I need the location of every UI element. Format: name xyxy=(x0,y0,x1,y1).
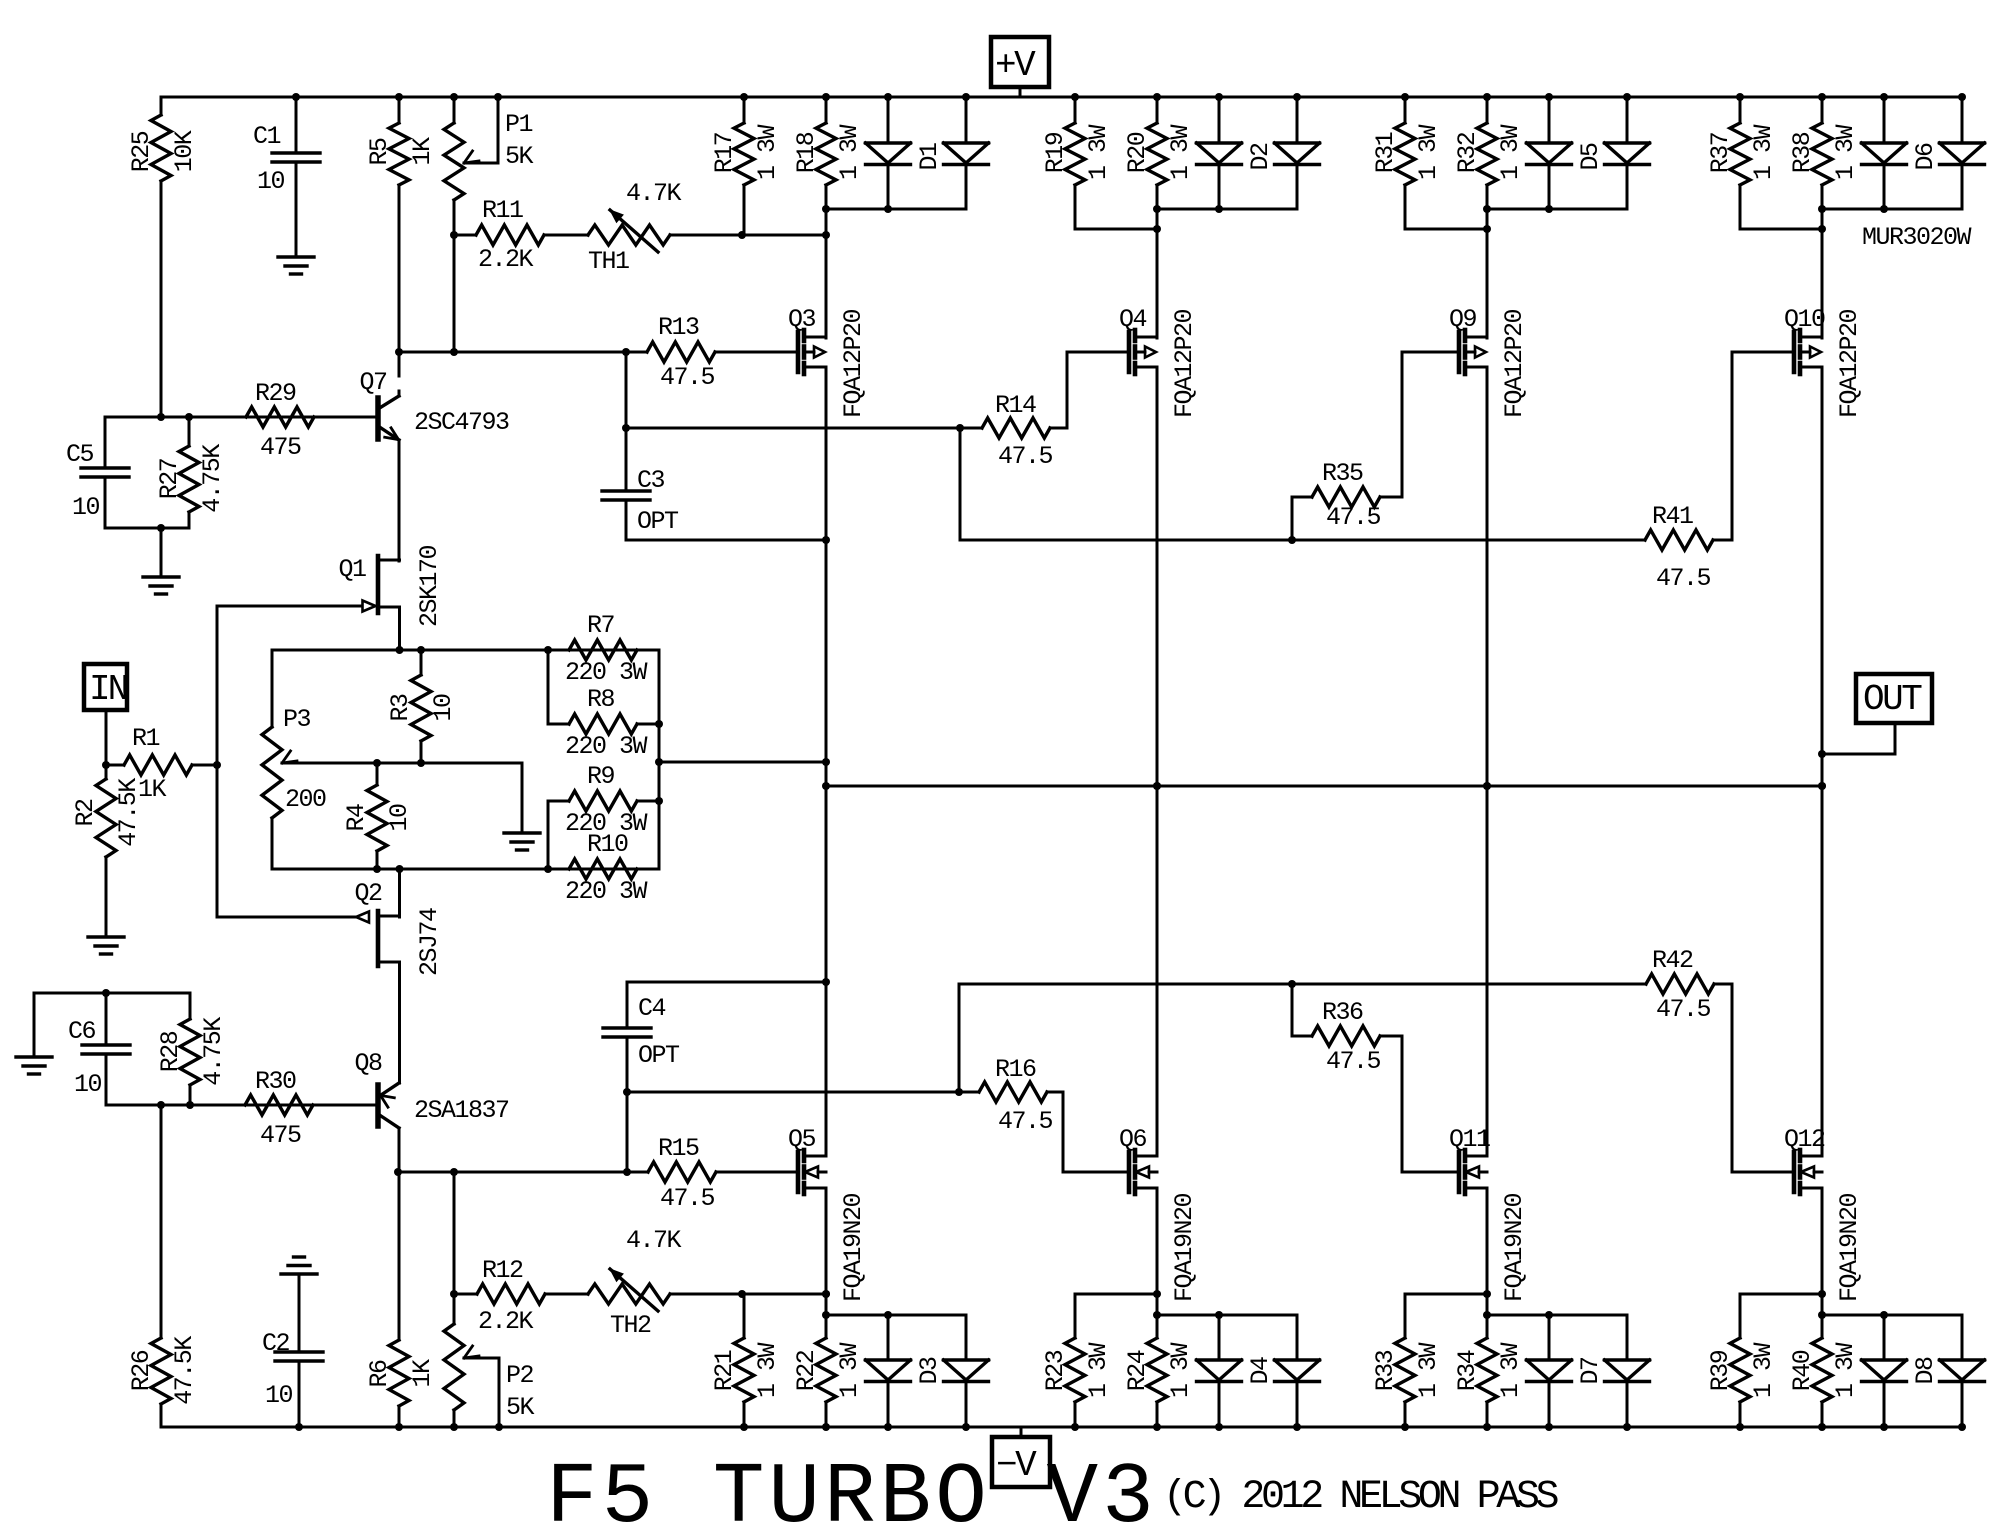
svg-text:R34: R34 xyxy=(1453,1350,1482,1391)
diode D8 b xyxy=(1961,1315,1964,1360)
wire gate bus drop to y540 xyxy=(959,428,962,540)
transistor Q2 2SJ74 xyxy=(376,911,381,966)
svg-text:D7: D7 xyxy=(1576,1357,1605,1385)
wire R23 tie xyxy=(1075,1293,1157,1296)
resistor R14 xyxy=(960,427,982,430)
svg-text:+V: +V xyxy=(995,45,1036,86)
resistor R11 xyxy=(454,234,476,237)
svg-text:Q9: Q9 xyxy=(1449,305,1477,334)
wire C4 to drain column xyxy=(627,981,826,984)
svg-text:C3: C3 xyxy=(637,466,665,495)
resistor R25 xyxy=(160,97,163,115)
+V port xyxy=(991,37,1049,87)
wire Q1 source down xyxy=(398,607,401,650)
wire C6 top tie xyxy=(34,992,190,995)
ground below C1 xyxy=(278,255,314,258)
svg-text:R38: R38 xyxy=(1788,132,1817,173)
svg-text:R37: R37 xyxy=(1706,132,1735,173)
resistor R8 220 3W xyxy=(547,650,550,724)
potentiometer P2 xyxy=(453,1294,456,1324)
resistor R18 1 3W xyxy=(825,97,828,123)
svg-text:C1: C1 xyxy=(253,122,281,151)
svg-text:Q6: Q6 xyxy=(1119,1125,1147,1154)
transistor Q7 2SC4793 xyxy=(375,398,381,439)
capacitor C4 OPT xyxy=(626,1037,629,1092)
wire Q9 drain down xyxy=(1486,367,1489,1156)
svg-text:R13: R13 xyxy=(658,313,699,342)
wire D3 tie xyxy=(826,1314,966,1317)
svg-text:2SK170: 2SK170 xyxy=(415,545,444,627)
wire Q8 collector down xyxy=(398,1128,401,1172)
wire Q1 source node line xyxy=(272,649,659,652)
svg-text:5K: 5K xyxy=(506,1393,535,1422)
wire +V stem xyxy=(1019,87,1022,97)
resistor R16 xyxy=(979,1082,1047,1102)
svg-text:47.5: 47.5 xyxy=(998,442,1053,471)
svg-text:R22: R22 xyxy=(792,1350,821,1391)
svg-text:1 3W: 1 3W xyxy=(835,1343,864,1399)
svg-text:R6: R6 xyxy=(365,1360,394,1388)
wire gate bus y428 xyxy=(626,427,960,430)
svg-text:47.5: 47.5 xyxy=(1326,503,1381,532)
svg-text:Q10: Q10 xyxy=(1784,305,1825,334)
svg-text:1 3W: 1 3W xyxy=(753,125,782,181)
svg-text:R11: R11 xyxy=(482,196,523,225)
svg-text:D2: D2 xyxy=(1246,143,1275,171)
wire IN stem xyxy=(105,710,108,765)
wire gate bus rise to y984 xyxy=(958,984,961,1092)
top rail dots xyxy=(292,93,300,101)
svg-text:TH1: TH1 xyxy=(588,247,629,276)
resistor R22 1 3W xyxy=(816,1338,836,1402)
svg-text:R17: R17 xyxy=(710,132,739,173)
svg-text:1 3W: 1 3W xyxy=(1414,1343,1443,1399)
svg-text:TH2: TH2 xyxy=(610,1311,651,1340)
resistor R19 1 3W xyxy=(1074,97,1077,123)
wire P2 column xyxy=(453,1172,456,1294)
svg-text:475: 475 xyxy=(260,433,301,462)
svg-text:D5: D5 xyxy=(1576,143,1605,171)
transistor Q10 FQA12P20 xyxy=(1792,332,1797,372)
svg-text:Q3: Q3 xyxy=(788,305,816,334)
svg-text:4.75K: 4.75K xyxy=(199,1017,228,1086)
wire P1 node down to front-end line xyxy=(453,235,456,352)
wire gate feed rise x627 xyxy=(626,1092,629,1172)
svg-text:R24: R24 xyxy=(1123,1350,1152,1391)
ground below C5 R27 xyxy=(143,575,179,578)
resistor R10 220 3W xyxy=(569,859,637,879)
svg-text:R30: R30 xyxy=(255,1067,296,1096)
wire P3 wiper line xyxy=(282,762,522,765)
wire +V top rail xyxy=(161,96,1964,99)
resistor R21 1 3W xyxy=(743,1294,746,1338)
wire front-end N line xyxy=(398,1171,648,1174)
wire R14 to Q4 gate xyxy=(1066,352,1069,428)
svg-text:220 3W: 220 3W xyxy=(565,877,648,906)
svg-text:47.5: 47.5 xyxy=(1656,564,1711,593)
transistor Q12 FQA19N20 xyxy=(1792,1152,1797,1192)
svg-text:1 3W: 1 3W xyxy=(1749,1343,1778,1399)
wire gate column xyxy=(216,606,219,917)
wire R16 to Q6 gate xyxy=(1062,1092,1065,1172)
svg-text:2.2K: 2.2K xyxy=(478,245,534,274)
svg-text:FQA12P20: FQA12P20 xyxy=(1170,309,1199,418)
resistor R40 1 3W xyxy=(1812,1338,1832,1402)
diode D3 b xyxy=(965,1315,968,1360)
wire Q2 source node line xyxy=(272,868,659,871)
svg-text:R32: R32 xyxy=(1453,132,1482,173)
resistor R3 xyxy=(420,650,423,675)
svg-text:220 3W: 220 3W xyxy=(565,658,648,687)
svg-text:10: 10 xyxy=(265,1381,293,1410)
diode D8 a xyxy=(1883,1315,1886,1360)
svg-text:FQA12P20: FQA12P20 xyxy=(839,309,868,418)
resistor R34 1 3W xyxy=(1477,1338,1497,1402)
resistor R24 1 3W xyxy=(1147,1338,1167,1402)
wire D6 tie xyxy=(1822,208,1962,211)
wire -V stem xyxy=(1020,1427,1023,1437)
svg-text:R21: R21 xyxy=(710,1350,739,1391)
svg-text:MUR3020W: MUR3020W xyxy=(1862,223,1972,252)
diode D6 b xyxy=(1961,97,1964,143)
svg-text:10: 10 xyxy=(72,493,100,522)
resistor R33 1 3W xyxy=(1404,1294,1407,1338)
svg-text:P3: P3 xyxy=(283,705,311,734)
svg-text:1 3W: 1 3W xyxy=(753,1343,782,1399)
svg-text:FQA19N20: FQA19N20 xyxy=(1835,1193,1864,1302)
svg-text:R41: R41 xyxy=(1652,502,1693,531)
svg-text:R16: R16 xyxy=(995,1055,1036,1084)
capacitor C5 xyxy=(104,417,107,468)
diode D6 a xyxy=(1883,97,1886,143)
resistor R2 xyxy=(105,765,108,779)
resistor R4 xyxy=(376,763,379,785)
diode D5 b xyxy=(1626,97,1629,143)
diode D4 b xyxy=(1296,1315,1299,1360)
resistor R29 xyxy=(246,407,314,427)
wire C5 R27 bottom tie xyxy=(105,527,189,530)
transistor Q9 FQA12P20 xyxy=(1457,332,1462,372)
svg-text:Q5: Q5 xyxy=(788,1125,816,1154)
resistor R41 xyxy=(1645,530,1713,550)
transistor Q11 FQA19N20 xyxy=(1457,1152,1462,1192)
thermistor TH2 4.7K xyxy=(588,1284,670,1304)
resistor R30 xyxy=(245,1095,313,1115)
svg-text:2SA1837: 2SA1837 xyxy=(414,1096,509,1125)
svg-text:R26: R26 xyxy=(127,1350,156,1391)
svg-text:4.75K: 4.75K xyxy=(198,444,227,513)
wire D8 tie xyxy=(1822,1314,1962,1317)
ground below wiper xyxy=(504,831,540,834)
svg-text:R3: R3 xyxy=(386,694,415,722)
capacitor C6 xyxy=(105,993,108,1045)
wire gate feed drop x626 xyxy=(625,352,628,428)
svg-text:Q8: Q8 xyxy=(354,1049,382,1078)
resistor R27 xyxy=(188,417,191,446)
svg-text:C6: C6 xyxy=(68,1017,96,1046)
svg-text:R2: R2 xyxy=(71,799,100,827)
svg-text:Q1: Q1 xyxy=(338,555,366,584)
thermistor TH1 4.7K xyxy=(588,225,670,245)
bottom rail dots xyxy=(295,1423,303,1431)
resistor R35 xyxy=(1288,536,1296,544)
resistor R5 xyxy=(398,97,401,123)
wire Q3 drain down xyxy=(825,367,828,1156)
diode D1 b xyxy=(965,97,968,143)
svg-text:R33: R33 xyxy=(1371,1350,1400,1391)
wire C3 to Q3 drain xyxy=(626,539,826,542)
resistor R20 1 3W xyxy=(1156,97,1159,123)
diode D1 a xyxy=(887,97,890,143)
svg-text:R10: R10 xyxy=(587,830,628,859)
svg-text:1 3W: 1 3W xyxy=(1496,1343,1525,1399)
transistor Q8 2SA1837 xyxy=(375,1085,381,1126)
wire R33 tie xyxy=(1405,1293,1487,1296)
wire output bus xyxy=(826,785,1822,788)
svg-text:1 3W: 1 3W xyxy=(1831,125,1860,181)
wire D1 tie xyxy=(826,208,966,211)
svg-text:D1: D1 xyxy=(915,143,944,171)
svg-text:D3: D3 xyxy=(915,1357,944,1385)
svg-text:1 3W: 1 3W xyxy=(1084,1343,1113,1399)
svg-text:R12: R12 xyxy=(482,1256,523,1285)
svg-text:FQA12P20: FQA12P20 xyxy=(1835,309,1864,418)
resistor R37 1 3W xyxy=(1739,97,1742,123)
svg-text:R36: R36 xyxy=(1322,998,1363,1027)
transistor Q6 FQA19N20 xyxy=(1127,1152,1132,1192)
transistor Q1 2SK170 xyxy=(376,556,381,613)
resistor R1 xyxy=(106,764,124,767)
transistor Q5 FQA19N20 xyxy=(796,1152,801,1192)
svg-text:OUT: OUT xyxy=(1863,679,1922,720)
svg-text:Q12: Q12 xyxy=(1784,1125,1825,1154)
diode D7 a xyxy=(1548,1315,1551,1360)
svg-text:(C) 2012 NELSON PASS: (C) 2012 NELSON PASS xyxy=(1163,1475,1558,1520)
wire P1 wiper to +V rail xyxy=(497,97,500,163)
svg-text:R35: R35 xyxy=(1322,459,1363,488)
OUT port xyxy=(1856,674,1932,723)
wire Q5 source down xyxy=(825,1188,828,1338)
wire wiper ground stem xyxy=(521,763,524,833)
svg-text:D6: D6 xyxy=(1911,143,1940,171)
svg-text:R40: R40 xyxy=(1788,1350,1817,1391)
svg-text:Q11: Q11 xyxy=(1449,1125,1490,1154)
svg-text:1 3W: 1 3W xyxy=(1166,1343,1195,1399)
svg-text:5K: 5K xyxy=(505,142,534,171)
resistor R13 xyxy=(647,342,715,362)
IN port xyxy=(84,664,127,710)
svg-text:R5: R5 xyxy=(365,138,394,166)
svg-text:2.2K: 2.2K xyxy=(478,1307,534,1336)
svg-text:R19: R19 xyxy=(1041,132,1070,173)
wire Q7 emitter to Q1 drain xyxy=(398,440,401,561)
svg-text:FQA19N20: FQA19N20 xyxy=(1500,1193,1529,1302)
potentiometer P1 xyxy=(453,97,456,123)
svg-text:47.5: 47.5 xyxy=(660,1184,715,1213)
svg-text:IN: IN xyxy=(89,669,127,710)
svg-text:10: 10 xyxy=(385,804,414,832)
svg-text:R1: R1 xyxy=(132,724,160,753)
potentiometer P3 xyxy=(271,650,274,727)
svg-text:R27: R27 xyxy=(155,458,184,499)
node dots top bias line xyxy=(450,231,458,239)
svg-text:R4: R4 xyxy=(342,804,371,832)
resistor R42 xyxy=(1646,974,1714,994)
svg-text:R39: R39 xyxy=(1706,1350,1735,1391)
svg-text:475: 475 xyxy=(260,1121,301,1150)
wire ladder to output column xyxy=(659,761,826,764)
wire D5 tie xyxy=(1487,208,1627,211)
svg-text:47.5: 47.5 xyxy=(1326,1047,1381,1076)
resistor R17 1 3W xyxy=(743,97,746,123)
svg-text:10K: 10K xyxy=(170,130,199,172)
svg-text:220 3W: 220 3W xyxy=(565,732,648,761)
wire Q10 drain down xyxy=(1821,367,1824,1156)
svg-text:R23: R23 xyxy=(1041,1350,1070,1391)
svg-text:1 3W: 1 3W xyxy=(1749,125,1778,181)
resistor R38 1 3W xyxy=(1821,97,1824,123)
wire D2 tie xyxy=(1157,208,1297,211)
diode D5 a xyxy=(1548,97,1551,143)
diode D7 b xyxy=(1626,1315,1629,1360)
svg-text:OPT: OPT xyxy=(638,1041,680,1070)
svg-text:10: 10 xyxy=(257,167,285,196)
resistor R7 220 3W xyxy=(569,640,637,660)
wire Q2 drain down to Q8 xyxy=(398,962,401,1083)
resistor R6 xyxy=(398,1172,401,1340)
svg-text:R29: R29 xyxy=(255,379,296,408)
resistor R28 xyxy=(189,993,192,1019)
svg-text:1K: 1K xyxy=(408,137,437,166)
svg-text:Q2: Q2 xyxy=(354,879,382,908)
svg-text:1 3W: 1 3W xyxy=(1831,1343,1860,1399)
svg-text:47.5: 47.5 xyxy=(660,363,715,392)
svg-text:C5: C5 xyxy=(66,440,94,469)
resistor R26 xyxy=(160,1105,163,1338)
ground above C2 xyxy=(294,1255,305,1258)
svg-text:R8: R8 xyxy=(587,685,615,714)
wire Q11 source down xyxy=(1486,1188,1489,1338)
diode D3 a xyxy=(887,1315,890,1360)
svg-text:10: 10 xyxy=(429,694,458,722)
resistor R36 xyxy=(1288,980,1296,988)
svg-text:R31: R31 xyxy=(1371,132,1400,173)
wire -V bottom rail xyxy=(161,1426,1964,1429)
capacitor C1 xyxy=(295,97,298,153)
svg-text:1 3W: 1 3W xyxy=(1166,125,1195,181)
svg-text:P1: P1 xyxy=(505,110,533,139)
wire gate bus y1092 xyxy=(627,1091,979,1094)
svg-text:R18: R18 xyxy=(792,132,821,173)
svg-text:R15: R15 xyxy=(658,1134,699,1163)
resistor R9 220 3W xyxy=(547,801,550,869)
wire front-end P line xyxy=(399,351,647,354)
svg-text:D4: D4 xyxy=(1246,1357,1275,1385)
wire Q6 source down xyxy=(1156,1188,1159,1338)
svg-text:2SC4793: 2SC4793 xyxy=(414,408,509,437)
wire Q4 drain down xyxy=(1156,367,1159,1156)
capacitor C2 xyxy=(298,1274,301,1352)
wire Q2 source up xyxy=(398,869,401,917)
wire P2 wiper to -V rail xyxy=(498,1358,501,1427)
svg-text:FQA19N20: FQA19N20 xyxy=(839,1193,868,1302)
svg-text:R42: R42 xyxy=(1652,946,1693,975)
diode D2 b xyxy=(1296,97,1299,143)
-V port xyxy=(992,1437,1050,1487)
svg-text:R20: R20 xyxy=(1123,132,1152,173)
transistor Q3 FQA12P20 xyxy=(796,332,801,372)
svg-text:2SJ74: 2SJ74 xyxy=(415,908,444,976)
resistor R32 1 3W xyxy=(1486,97,1489,123)
svg-text:200: 200 xyxy=(285,785,326,814)
svg-text:1 3W: 1 3W xyxy=(1496,125,1525,181)
diode D4 a xyxy=(1218,1315,1221,1360)
svg-text:Q7: Q7 xyxy=(359,368,387,397)
svg-text:47.5K: 47.5K xyxy=(114,778,143,847)
svg-text:10: 10 xyxy=(74,1070,102,1099)
svg-text:R9: R9 xyxy=(587,762,615,791)
svg-text:P2: P2 xyxy=(506,1361,534,1390)
ground below R2 xyxy=(88,935,124,938)
svg-text:1 3W: 1 3W xyxy=(1084,125,1113,181)
svg-text:4.7K: 4.7K xyxy=(626,1226,682,1255)
svg-text:R28: R28 xyxy=(156,1031,185,1072)
svg-text:4.7K: 4.7K xyxy=(626,179,682,208)
resistor R31 1 3W xyxy=(1404,97,1407,123)
svg-text:R14: R14 xyxy=(995,391,1036,420)
wire Q7 base line xyxy=(105,416,375,419)
wire ladder right vertical xyxy=(658,650,661,869)
svg-text:47.5: 47.5 xyxy=(1656,995,1711,1024)
svg-text:1 3W: 1 3W xyxy=(1414,125,1443,181)
svg-text:FQA19N20: FQA19N20 xyxy=(1170,1193,1199,1302)
wire D4 tie xyxy=(1157,1314,1297,1317)
wire Q8 base line xyxy=(106,1104,375,1107)
svg-text:FQA12P20: FQA12P20 xyxy=(1500,309,1529,418)
svg-text:D8: D8 xyxy=(1911,1357,1940,1385)
svg-text:R25: R25 xyxy=(127,131,156,172)
wire R39 tie xyxy=(1740,1293,1822,1296)
resistor R12 xyxy=(454,1293,477,1296)
svg-text:1 3W: 1 3W xyxy=(835,125,864,181)
svg-text:47.5: 47.5 xyxy=(998,1107,1053,1136)
svg-text:OPT: OPT xyxy=(637,507,679,536)
svg-text:C4: C4 xyxy=(638,994,666,1023)
wire OUT stem xyxy=(1894,723,1897,754)
svg-text:1K: 1K xyxy=(408,1359,437,1388)
svg-text:Q4: Q4 xyxy=(1119,305,1147,334)
wire D7 tie xyxy=(1487,1314,1627,1317)
svg-text:F5 TURBO V3: F5 TURBO V3 xyxy=(546,1449,1158,1526)
resistor R15 xyxy=(648,1162,716,1182)
wire Q12 source down xyxy=(1821,1188,1824,1338)
diode D2 a xyxy=(1218,97,1221,143)
svg-text:47.5K: 47.5K xyxy=(170,1336,199,1405)
resistor R39 1 3W xyxy=(1739,1294,1742,1338)
svg-text:C2: C2 xyxy=(262,1329,290,1358)
capacitor C3 OPT xyxy=(625,428,628,491)
wire C6 ground stem xyxy=(33,993,36,1057)
resistor R23 1 3W xyxy=(1074,1294,1077,1338)
ground left of C6 xyxy=(16,1055,52,1058)
svg-text:R7: R7 xyxy=(587,611,615,640)
transistor Q4 FQA12P20 xyxy=(1127,332,1132,372)
